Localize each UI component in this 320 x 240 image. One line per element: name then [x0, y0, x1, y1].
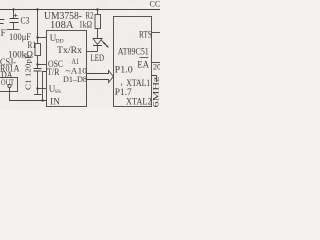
bus arrow D1-D8 to P1	[87, 71, 114, 83]
svg-text:DD: DD	[56, 38, 64, 44]
node T/R to OUT wire junction	[41, 99, 43, 101]
resistor R2 1k	[95, 15, 101, 29]
svg-text:A1: A1	[72, 56, 80, 66]
node junction C3 on rail	[12, 8, 14, 10]
wire: rail to R2	[97, 10, 99, 15]
capacitor C1 120pF	[34, 69, 42, 95]
receiver module box CSJ-R01A	[0, 78, 18, 92]
svg-text:,: ,	[121, 77, 123, 87]
svg-text:C1 120pF: C1 120pF	[24, 54, 33, 90]
wire: LED cathode to Tx/Rx pin	[87, 51, 98, 53]
ground bar of C1	[34, 94, 42, 96]
wire: T/R pin L-shape	[43, 72, 47, 101]
MCU U2 AT89C51 box	[114, 17, 152, 107]
wire: UDD pin	[38, 37, 47, 39]
svg-text:EA: EA	[137, 61, 149, 71]
node junction R2 branch on rail	[96, 8, 98, 10]
wire: RTS pin	[152, 32, 161, 34]
svg-text:D1–D8: D1–D8	[63, 74, 87, 84]
paper background	[0, 0, 160, 110]
svg-text:AT89C51: AT89C51	[118, 48, 149, 58]
EA overline	[140, 57, 149, 59]
node OSC junction	[36, 63, 38, 65]
wire: VCC top rail	[0, 9, 160, 11]
svg-text:P1.0: P1.0	[115, 66, 133, 76]
svg-text:R1: R1	[28, 40, 37, 50]
LED diode symbol	[93, 39, 102, 52]
svg-text:SS: SS	[55, 89, 61, 95]
node USS junction	[36, 87, 38, 89]
svg-text:F: F	[1, 28, 6, 38]
svg-text:P1.7: P1.7	[115, 88, 132, 98]
svg-text:108A: 108A	[50, 20, 74, 31]
svg-text:Tx/Rx: Tx/Rx	[57, 45, 83, 55]
wire: EA pin	[152, 62, 161, 64]
svg-text:1kΩ: 1kΩ	[79, 20, 92, 30]
node junction R1 branch on rail	[36, 8, 38, 10]
LED emission arrows	[101, 40, 109, 48]
svg-text:RTS: RTS	[139, 31, 152, 41]
svg-text:C3: C3	[21, 16, 30, 26]
wire: USS pin	[38, 88, 47, 90]
resistor R1 100k	[35, 44, 41, 56]
op IC U1 UM3758-108A box	[47, 31, 87, 107]
svg-text:CC: CC	[150, 0, 161, 9]
wire: R1 bottom to OSC node	[37, 56, 39, 69]
polarity plus of C3	[14, 14, 18, 17]
capacitor C3 100uF	[10, 10, 19, 30]
wire: OSC pin	[38, 64, 47, 66]
svg-text:LED: LED	[91, 54, 105, 64]
node UDD junction	[36, 36, 38, 38]
wire: XTAL1 to crystal	[152, 76, 157, 83]
svg-text:6MHz: 6MHz	[152, 76, 161, 108]
svg-text:XTAL2: XTAL2	[126, 98, 152, 108]
svg-text:OUT: OUT	[1, 77, 15, 87]
wire: R2 to LED anode	[97, 29, 99, 39]
ground bar of C3	[7, 29, 20, 31]
capacitor C2 (cut off at left edge)	[0, 20, 4, 24]
pin circle OUT	[8, 84, 11, 87]
wire: rail to R1 / UDD	[37, 10, 39, 44]
svg-text:IN: IN	[50, 98, 60, 108]
wire: OUT to IN	[10, 88, 47, 101]
svg-text:20: 20	[153, 62, 160, 71]
svg-text:T/R: T/R	[47, 67, 60, 77]
